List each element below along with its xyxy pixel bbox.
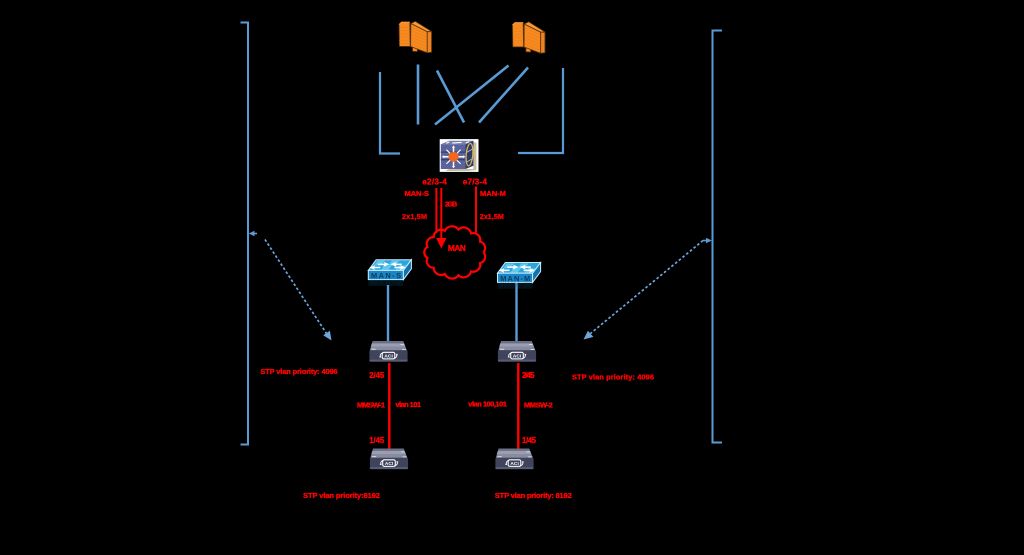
svg-text:MAN-M: MAN-M [480,189,506,198]
tick on right bracket [703,238,712,243]
svg-text:2x1,5M: 2x1,5M [402,212,427,221]
red arrowhead into cloud [436,238,446,249]
ACI leaf switch 3 (bottom left) [370,449,408,470]
svg-text:vlan 101: vlan 101 [395,400,421,409]
tick on left bracket [249,231,257,236]
wire FW2 diagonal crossing [435,66,509,125]
firewall FW2 [512,22,545,53]
right face [466,141,474,169]
wire ACI leaf1 to ACI leaf3 (red) [388,363,390,449]
svg-text:STP vlan priority: 4096: STP vlan priority: 4096 [260,367,337,376]
wire FW1 diagonal [437,71,464,123]
ACI leaf switch 4 (bottom right) [495,449,533,470]
shadow [445,142,476,172]
svg-text:2x1,5M: 2x1,5M [480,212,504,221]
ACI leaf switch 1 (top left) [369,341,407,362]
firewall FW1 [399,21,432,52]
switch MAN-S [368,260,411,287]
wire nexus to MAN cloud right [475,187,477,233]
arrow left bracket to ACI [265,240,332,341]
wire MAN-M to ACI leaf 2 [515,281,517,343]
cloud MAN [424,226,485,278]
svg-text:STP vlan priority: 4096: STP vlan priority: 4096 [572,372,654,381]
svg-text:2/45: 2/45 [369,371,385,380]
rays [443,147,464,167]
orange hub circle [449,152,459,162]
svg-text:MAN-M: MAN-M [500,280,530,289]
nexus switch N7K [440,139,479,172]
elbow connector left of nexus [380,72,400,154]
gold ring [465,143,474,166]
wire nexus port channel to MAN cloud (double red) [436,188,441,238]
svg-text:MAN: MAN [448,243,466,253]
svg-text:MMSW-2: MMSW-2 [524,401,553,410]
svg-text:2GB: 2GB [445,200,457,209]
svg-text:1/45: 1/45 [522,436,537,445]
svg-text:MAN-S: MAN-S [371,277,401,286]
svg-text:2/45: 2/45 [522,371,535,380]
elbow connector right of nexus [518,68,563,153]
top face [441,141,474,145]
front face [441,144,466,169]
bracket right [712,30,722,444]
arrow right bracket to ACI [584,241,704,340]
svg-text:1/45: 1/45 [369,436,385,445]
wire FW2 diagonal right [479,68,528,123]
svg-text:MAN-S: MAN-S [404,189,429,198]
svg-text:vlan 100,101: vlan 100,101 [468,399,507,408]
svg-text:STP vlan priority: 8192: STP vlan priority: 8192 [495,491,572,500]
svg-text:e2/3-4: e2/3-4 [422,177,447,186]
svg-text:e7/3-4: e7/3-4 [463,177,488,186]
svg-text:STP vlan priority:8192: STP vlan priority:8192 [303,491,380,500]
bracket left [241,22,249,446]
ACI leaf switch 2 (top right) [498,341,536,362]
switch MAN-M [498,263,541,290]
wire ACI leaf2 to ACI leaf4 (red) [517,363,519,449]
svg-text:MMSW-1: MMSW-1 [357,400,385,409]
wire MAN-S to ACI leaf 1 [387,285,389,341]
wire FW1 down [417,65,420,125]
